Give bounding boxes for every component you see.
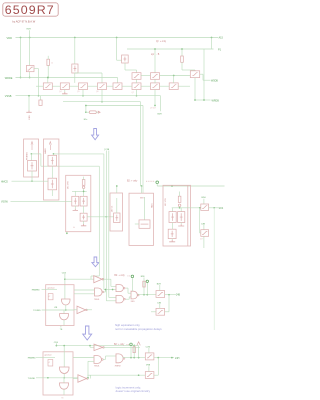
svg-text:B2R: B2R bbox=[157, 283, 162, 285]
svg-text:PHASE0: PHASE0 bbox=[26, 151, 29, 160]
svg-text:Qr: + only: Qr: + only bbox=[156, 40, 167, 43]
svg-text:rP: rP bbox=[48, 361, 51, 364]
svg-text:Q4: Q4 bbox=[59, 91, 62, 93]
svg-text:24H: 24H bbox=[175, 357, 180, 360]
svg-text:C1B: C1B bbox=[62, 272, 67, 274]
svg-text:B2: + only: B2: + only bbox=[114, 275, 125, 277]
svg-text:Q7: Q7 bbox=[132, 92, 135, 94]
svg-text:B2: + only: B2: + only bbox=[114, 344, 125, 346]
svg-text:WRDE: WRDE bbox=[5, 77, 13, 80]
svg-text:rP: rP bbox=[49, 295, 52, 298]
svg-text:7MUL: 7MUL bbox=[94, 299, 100, 301]
svg-text:HMCD: HMCD bbox=[1, 181, 8, 183]
svg-text:A15: A15 bbox=[219, 36, 224, 39]
svg-text:TB: TB bbox=[61, 397, 64, 399]
svg-text:VDD: VDD bbox=[7, 36, 13, 40]
svg-text:gerstrutz: gerstrutz bbox=[45, 353, 52, 356]
svg-text:7MEW: 7MEW bbox=[115, 365, 121, 367]
svg-text:24B: 24B bbox=[176, 294, 181, 296]
svg-text:C3B: C3B bbox=[201, 224, 206, 226]
svg-text:CLM: CLM bbox=[146, 346, 151, 348]
svg-text:MIC VSS: MIC VSS bbox=[165, 197, 167, 206]
svg-text:Q6: Q6 bbox=[96, 91, 99, 93]
svg-text:W0DB: W0DB bbox=[211, 79, 218, 82]
svg-text:gerstrutz: gerstrutz bbox=[48, 286, 55, 289]
svg-text:7MUL: 7MUL bbox=[94, 366, 100, 368]
svg-text:B2: + only: B2: + only bbox=[127, 180, 138, 182]
svg-text:E2H: E2H bbox=[27, 29, 32, 31]
svg-text:Q9 4k7: Q9 4k7 bbox=[150, 108, 156, 110]
svg-text:4k: 4k bbox=[73, 227, 75, 229]
svg-text:6509R7: 6509R7 bbox=[5, 3, 55, 17]
svg-text:VSSW: VSSW bbox=[1, 201, 9, 203]
svg-text:MIC VSS: MIC VSS bbox=[67, 180, 69, 189]
svg-text:VSB: VSB bbox=[146, 365, 151, 367]
svg-text:TOUND: TOUND bbox=[28, 378, 36, 380]
svg-text:C3B: C3B bbox=[157, 302, 162, 304]
svg-text:not for metastable propagation: not for metastable propagation delays bbox=[115, 327, 162, 331]
svg-text:TB: TB bbox=[60, 329, 63, 331]
svg-text:4k7: 4k7 bbox=[200, 239, 203, 241]
svg-text:ERS: ERS bbox=[29, 115, 31, 120]
svg-text:SO4: SO4 bbox=[219, 208, 224, 210]
svg-text:TOUND: TOUND bbox=[33, 310, 41, 312]
svg-text:E2s: E2s bbox=[84, 119, 87, 121]
svg-text:LEV 13: LEV 13 bbox=[112, 206, 114, 212]
svg-text:HA21: HA21 bbox=[151, 203, 154, 208]
svg-text:HAND: HAND bbox=[44, 148, 47, 154]
svg-text:B2H: B2H bbox=[158, 113, 163, 115]
svg-text:HMMED: HMMED bbox=[32, 289, 40, 291]
svg-text:doesn't use original circuitry: doesn't use original circuitry bbox=[116, 389, 151, 393]
svg-text:P1: P1 bbox=[218, 49, 222, 52]
svg-text:Q5: Q5 bbox=[77, 91, 80, 93]
svg-text:FKD: FKD bbox=[131, 301, 136, 303]
svg-text:spr → B: spr → B bbox=[151, 53, 160, 56]
svg-text:WRDB: WRDB bbox=[212, 100, 220, 103]
svg-text:HMMED: HMMED bbox=[28, 358, 36, 360]
svg-text:VSSB: VSSB bbox=[5, 95, 12, 98]
svg-text:by ACF 97 N.B.A.W: by ACF 97 N.B.A.W bbox=[12, 20, 35, 24]
svg-text:B2B: B2B bbox=[141, 276, 145, 278]
svg-text:1k: 1k bbox=[51, 62, 53, 64]
svg-text:L2B: L2B bbox=[54, 307, 58, 309]
